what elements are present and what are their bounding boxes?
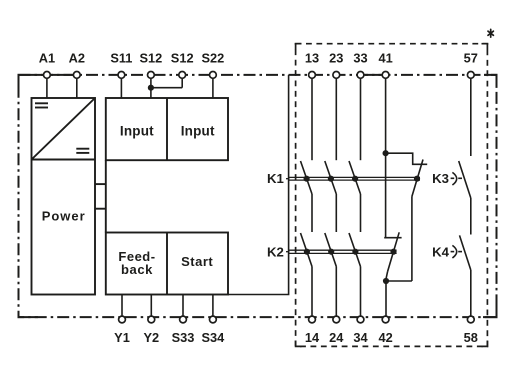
svg-text:13: 13 (305, 51, 319, 66)
svg-text:24: 24 (329, 330, 344, 345)
svg-text:58: 58 (464, 330, 478, 345)
svg-text:back: back (121, 262, 153, 277)
svg-text:57: 57 (464, 51, 478, 66)
svg-text:41: 41 (378, 51, 392, 66)
svg-text:14: 14 (305, 330, 320, 345)
svg-text:S22: S22 (202, 51, 225, 66)
svg-text:Input: Input (181, 124, 215, 139)
svg-text:Start: Start (181, 254, 213, 269)
svg-text:K1: K1 (267, 171, 284, 186)
svg-text:S33: S33 (172, 330, 195, 345)
svg-text:Input: Input (120, 124, 154, 139)
svg-text:A2: A2 (69, 51, 85, 66)
svg-text:Power: Power (42, 208, 86, 223)
svg-text:K3: K3 (432, 171, 449, 186)
svg-text:S34: S34 (202, 330, 226, 345)
svg-text:K4: K4 (432, 244, 450, 259)
svg-text:33: 33 (353, 51, 367, 66)
svg-text:23: 23 (329, 51, 343, 66)
svg-text:Y1: Y1 (114, 330, 130, 345)
svg-text:34: 34 (353, 330, 368, 345)
svg-text:S12: S12 (171, 51, 194, 66)
svg-text:A1: A1 (39, 51, 55, 66)
svg-text:42: 42 (378, 330, 392, 345)
svg-text:K2: K2 (267, 244, 284, 259)
svg-text:S12: S12 (140, 51, 163, 66)
svg-text:S11: S11 (110, 51, 132, 66)
svg-text:Y2: Y2 (143, 330, 159, 345)
